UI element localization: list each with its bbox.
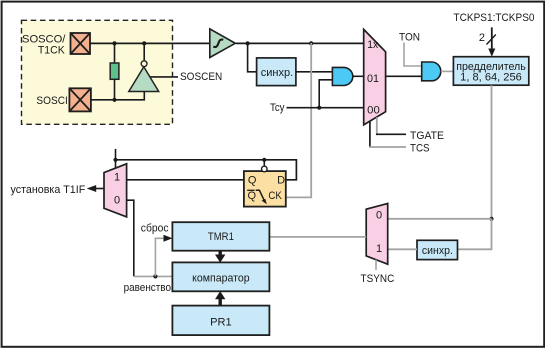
pin SOSCI (69, 88, 91, 111)
mux TSYNC (366, 204, 388, 265)
svg-text:T1CK: T1CK (38, 44, 65, 56)
wire SOSCI to inverter input (91, 92, 144, 100)
svg-text:синхр.: синхр. (422, 245, 453, 257)
svg-text:2: 2 (479, 32, 485, 44)
prescaler (453, 57, 528, 85)
svg-text:1: 1 (376, 243, 382, 255)
node clock branch (309, 41, 313, 45)
wire TGATE select (376, 117, 378, 134)
svg-text:TGATE: TGATE (410, 130, 444, 142)
svg-text:PR1: PR1 (210, 317, 232, 329)
svg-text:установка T1IF: установка T1IF (11, 184, 86, 196)
svg-text:0: 0 (376, 209, 382, 221)
node resistor top (112, 41, 116, 45)
oscillator dashed box (22, 20, 173, 124)
register PR1 (172, 306, 269, 336)
svg-text:0: 0 (114, 195, 120, 207)
wire TSYNC mux out to TMR1 (269, 236, 366, 238)
wire to TSYNC mux 0 (388, 218, 492, 220)
svg-text:SOSCI: SOSCI (36, 95, 67, 107)
svg-text:01: 01 (367, 73, 379, 85)
comparator (172, 262, 269, 291)
wire FF top stub (263, 160, 265, 166)
wire FF clock (long vertical) (286, 43, 311, 197)
wire sync2 to TSYNC mux 1 (388, 248, 417, 250)
svg-text:00: 00 (367, 105, 380, 117)
sync block 2 (417, 240, 458, 259)
wire TGATE line to FF D and T1IF mux select (115, 149, 117, 168)
resistor (114, 43, 116, 63)
node Tcy branch (317, 106, 321, 110)
svg-text:D: D (277, 175, 285, 187)
AND gate 2 (422, 62, 441, 81)
node reset branch (153, 274, 157, 278)
sync block 1 (257, 58, 296, 86)
wire Tcy to mux 00 (287, 107, 364, 109)
svg-text:TON: TON (399, 31, 420, 43)
wire TCKPS bus arrow (491, 27, 493, 50)
svg-text:TMR1: TMR1 (208, 231, 234, 243)
node inverter out (142, 41, 146, 45)
wire TMR1 to comparator arrow (218, 251, 221, 256)
svg-text:TSYNC: TSYNC (361, 273, 395, 285)
wire SOSCO to Schmitt input (90, 42, 209, 44)
AND gate 1 (332, 67, 352, 85)
svg-text:равенство: равенство (124, 282, 171, 294)
wire Tcy to AND1 lower input (319, 80, 332, 108)
wire TCS select (369, 121, 371, 147)
pin SOSCO/T1CK (71, 33, 91, 54)
wire mux out to AND2 (386, 75, 422, 77)
svg-text:TCKPS1:TCKPS0: TCKPS1:TCKPS0 (454, 12, 535, 24)
wire AND1 out to mux 01 (353, 75, 364, 77)
wire T1IF mux out arrow (95, 188, 104, 190)
wire equality to comparator (134, 275, 173, 277)
wire TON to AND2 (404, 43, 422, 67)
wire to sync block 2 (458, 219, 492, 250)
svg-text:1x: 1x (367, 39, 378, 51)
wire to sync block 1 (248, 43, 257, 71)
Schmitt trigger buffer (210, 29, 236, 58)
wire TSYNC select stub (375, 260, 377, 270)
node FF top (262, 158, 266, 162)
svg-text:1: 1 (114, 171, 120, 183)
D flip-flop (244, 171, 286, 207)
svg-text:Tcy: Tcy (270, 102, 285, 114)
wire prescaler out down (491, 85, 493, 219)
register TMR1 (172, 222, 269, 251)
svg-text:CK: CK (268, 190, 282, 202)
svg-text:компаратор: компаратор (192, 273, 250, 285)
wire reset to TMR1 (155, 238, 164, 276)
node sync branch (246, 41, 250, 45)
wire SOSCEN enable (150, 76, 178, 78)
wire FF Q to T1IF mux 1 (127, 179, 244, 181)
svg-text:1, 8, 64, 256: 1, 8, 64, 256 (460, 71, 522, 83)
svg-text:SOSCEN: SOSCEN (180, 71, 222, 83)
wire AND2 out to prescaler (441, 70, 454, 72)
node T1IF select (113, 158, 117, 162)
mux clock select (364, 29, 386, 125)
wire sync1 to AND1 (296, 71, 333, 73)
inverter (129, 67, 159, 92)
mux T1IF set (104, 164, 127, 217)
node resistor bottom (112, 98, 116, 102)
wire PR1 to comparator arrow (218, 299, 221, 306)
svg-text:TCS: TCS (410, 142, 430, 154)
svg-text:Q: Q (248, 190, 257, 202)
svg-text:сброс: сброс (141, 223, 169, 235)
svg-text:Q: Q (248, 175, 257, 187)
wire equality to T1IF mux 0 (127, 200, 134, 276)
wire Schmitt out to mux 1x (236, 42, 364, 44)
svg-text:синхр.: синхр. (261, 67, 294, 79)
node prescaler branch (489, 217, 493, 221)
